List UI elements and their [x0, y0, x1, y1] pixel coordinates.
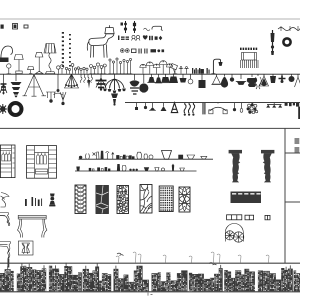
spiral stair	[225, 224, 244, 243]
bracket tray glyph	[152, 26, 163, 30]
dark torch ornament	[271, 30, 275, 55]
sheet top rule	[0, 18, 300, 20]
bead column 2	[69, 34, 71, 67]
console table	[18, 215, 47, 237]
ceiling line 1	[0, 73, 300, 75]
ceiling line 2	[125, 102, 300, 104]
bench box 2	[245, 215, 254, 220]
wardrobe 1	[0, 145, 15, 178]
wreath	[8, 102, 23, 115]
ornament column 1	[124, 21, 126, 33]
panel 4 branches	[140, 185, 152, 214]
tiny block B	[13, 24, 18, 30]
tiny block A	[1, 25, 4, 29]
pendant row 1	[0, 74, 302, 105]
snowflake ornament	[0, 104, 7, 114]
panel 6 floral lattice	[179, 187, 190, 212]
slotted dark bar	[231, 192, 262, 204]
dark ring	[283, 38, 290, 45]
pendant row 2	[135, 103, 300, 119]
bead column 1	[62, 32, 64, 67]
tiny block C	[24, 25, 28, 28]
curtain left	[229, 150, 242, 183]
ornament column 2	[133, 21, 135, 33]
curvy console	[0, 213, 10, 226]
frame top line	[0, 127, 300, 129]
panel 3 circles	[116, 185, 128, 214]
curtain right	[261, 150, 274, 183]
dark finial	[49, 194, 55, 207]
shelf A with vases	[79, 151, 214, 160]
horse figure lamp	[87, 25, 114, 58]
bench box 1	[227, 215, 242, 220]
bottom tiny plants	[116, 252, 269, 263]
bird 2	[209, 263, 217, 265]
floor lamp row	[0, 44, 222, 74]
frame bottom line	[0, 262, 300, 264]
bird garland	[278, 26, 300, 31]
panel 5 dotted grid	[159, 186, 173, 212]
right column divider 2	[285, 201, 300, 203]
candle sticks	[25, 197, 42, 206]
ornate bracket	[1, 193, 10, 208]
glyph row 1	[118, 35, 162, 40]
shelf B with pots	[75, 164, 197, 171]
hourglass table	[18, 241, 33, 255]
scale tick	[148, 293, 153, 296]
title text block	[295, 138, 300, 153]
wardrobe 2	[27, 146, 57, 179]
right column divider 1	[285, 152, 300, 154]
glyph row 2	[120, 49, 164, 54]
panel 2 dark abstract	[96, 186, 108, 214]
panel 1 star lattice	[75, 183, 86, 217]
candelabra marks	[46, 92, 66, 105]
hook rack	[240, 49, 258, 68]
console 2	[0, 242, 11, 259]
wave glyph	[144, 28, 150, 31]
right column vline	[284, 128, 286, 263]
city skyline	[0, 259, 302, 292]
tiny dot pendant	[121, 23, 124, 26]
bird 1	[117, 253, 124, 255]
bench box 3	[265, 215, 270, 219]
